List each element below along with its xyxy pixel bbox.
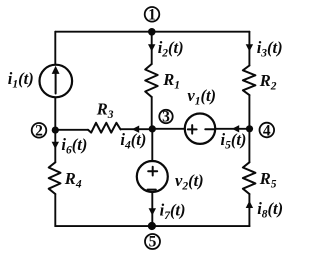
svg-text:v1(t): v1(t) bbox=[187, 86, 216, 108]
arrowhead i3 (down) bbox=[246, 44, 253, 51]
v2 minus sign bbox=[148, 189, 156, 191]
wire v1 to node 4 bbox=[215, 128, 249, 130]
svg-text:4: 4 bbox=[263, 123, 271, 140]
wire node2 to R3 bbox=[55, 129, 88, 131]
wire right vertical upper bbox=[248, 32, 250, 66]
resistor R5 zigzag bbox=[243, 162, 256, 194]
v2 plus sign bbox=[148, 167, 157, 176]
svg-text:i4(t): i4(t) bbox=[120, 130, 146, 152]
junction dot node 4 bbox=[246, 125, 253, 132]
svg-text:i5(t): i5(t) bbox=[221, 130, 247, 152]
arrowhead i8 (up) bbox=[246, 201, 253, 208]
v1 plus sign bbox=[188, 125, 197, 134]
svg-text:R1: R1 bbox=[162, 70, 180, 92]
svg-text:R5: R5 bbox=[259, 169, 277, 191]
resistor R4 zigzag bbox=[49, 162, 61, 194]
svg-text:5: 5 bbox=[149, 234, 157, 251]
svg-text:i6(t): i6(t) bbox=[61, 135, 87, 157]
arrowhead i7 (down) bbox=[149, 208, 156, 215]
node 1 circle bbox=[145, 7, 160, 22]
node 5 circle bbox=[145, 234, 160, 249]
wire node4 down to R5 bbox=[248, 129, 250, 163]
wire R5 to bottom bbox=[248, 194, 250, 226]
svg-text:2: 2 bbox=[35, 123, 43, 140]
wire node3 down to v2 bbox=[151, 129, 153, 161]
resistor R3 zigzag bbox=[88, 123, 121, 133]
wire R2 to node 4 bbox=[248, 95, 250, 129]
arrowhead i4 (left) bbox=[132, 126, 139, 133]
wire left vertical upper bbox=[54, 32, 56, 65]
node 3 circle bbox=[159, 110, 172, 123]
wire bottom horizontal bbox=[55, 225, 249, 227]
svg-text:v2(t): v2(t) bbox=[175, 171, 204, 193]
wire node1 stub middle bbox=[151, 32, 153, 64]
current source i1 circle bbox=[40, 65, 73, 98]
junction dot node 3 bbox=[149, 125, 156, 132]
resistor R2 zigzag bbox=[243, 66, 256, 96]
wire left vertical lower to node 2 bbox=[54, 97, 56, 130]
wire v2 to bottom node 5 bbox=[151, 192, 153, 226]
svg-text:3: 3 bbox=[162, 108, 170, 125]
svg-text:R3: R3 bbox=[96, 100, 114, 122]
junction dot node 1 bbox=[148, 28, 156, 36]
wire node3 to v1 bbox=[152, 128, 185, 130]
resistor R1 zigzag bbox=[145, 64, 158, 97]
voltage source v1 circle bbox=[185, 114, 215, 144]
svg-text:i3(t): i3(t) bbox=[257, 38, 283, 60]
node 4 circle bbox=[260, 123, 275, 138]
svg-text:i1(t): i1(t) bbox=[8, 69, 34, 91]
wire R1 to node 3 bbox=[151, 97, 153, 129]
svg-text:R4: R4 bbox=[64, 169, 82, 191]
wire top horizontal bbox=[55, 31, 249, 33]
svg-text:1: 1 bbox=[148, 7, 156, 24]
junction dot node 2 bbox=[52, 127, 59, 134]
current source i1 arrow shaft bbox=[55, 73, 57, 94]
junction dot node 5 bbox=[148, 222, 156, 230]
voltage source v2 circle bbox=[137, 161, 168, 192]
arrowhead i1 (up, inside source) bbox=[52, 66, 60, 74]
arrowhead i2 (down) bbox=[148, 44, 155, 51]
v1 minus sign bbox=[205, 128, 214, 130]
arrowhead i6 (down) bbox=[52, 142, 59, 149]
arrowhead i5 (left) bbox=[232, 125, 239, 132]
svg-text:i8(t): i8(t) bbox=[257, 199, 283, 221]
svg-text:R2: R2 bbox=[259, 71, 277, 93]
node 2 circle bbox=[32, 123, 47, 138]
wire node2 down to R4 bbox=[54, 130, 56, 162]
wire R4 to bottom bbox=[54, 194, 56, 226]
svg-text:i2(t): i2(t) bbox=[158, 38, 184, 60]
svg-text:i7(t): i7(t) bbox=[160, 201, 186, 223]
wire R3 to node 3 bbox=[121, 128, 153, 130]
